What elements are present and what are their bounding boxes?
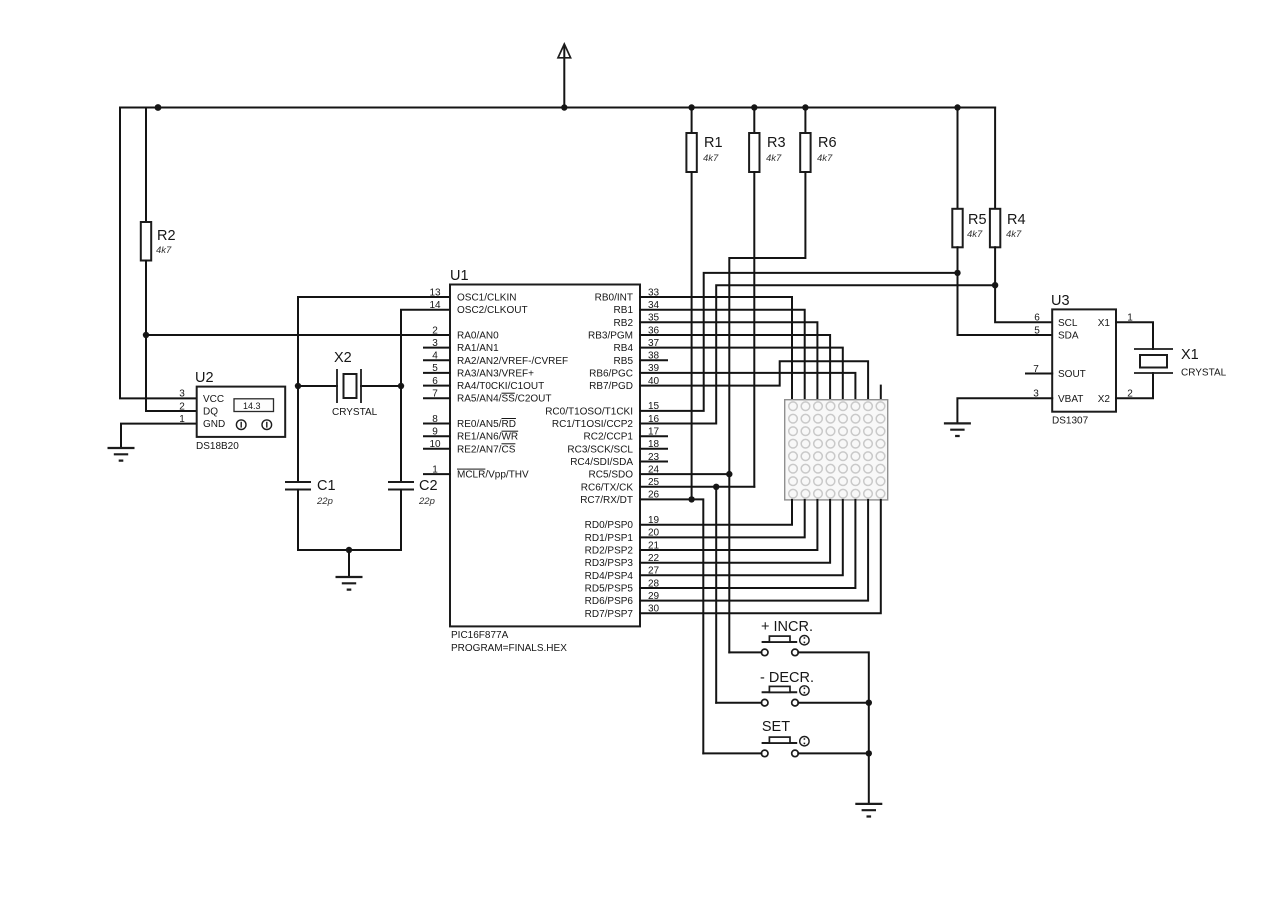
- U1 left pin numbers: [429, 287, 441, 475]
- wire RA0 to PIC pin 2: [146, 334, 450, 336]
- button SET label: [762, 719, 790, 735]
- svg-text:RB6/PGC: RB6/PGC: [589, 368, 633, 379]
- wire rail corner to R4: [994, 108, 996, 209]
- node rail-R6 junction: [802, 104, 808, 110]
- svg-text:RD1/PSP1: RD1/PSP1: [585, 533, 634, 544]
- svg-text:14.3: 14.3: [243, 401, 261, 411]
- svg-text:U1: U1: [450, 268, 469, 284]
- wire RD5 pin28 to matrix bottom pin6: [640, 500, 855, 588]
- wire R3 top: [753, 108, 755, 134]
- wire DECR left lead: [716, 702, 761, 704]
- wire R1 bottom to RC7: [691, 172, 693, 499]
- wire crystal right lead: [361, 385, 401, 387]
- svg-text:RD2/PSP2: RD2/PSP2: [585, 546, 634, 557]
- svg-text:RB0/INT: RB0/INT: [595, 293, 633, 304]
- svg-text:C1: C1: [317, 478, 336, 494]
- svg-text:3: 3: [179, 389, 185, 400]
- wire RD2 pin21 to matrix bottom pin3: [640, 500, 817, 550]
- svg-text:PROGRAM=FINALS.HEX: PROGRAM=FINALS.HEX: [451, 643, 567, 654]
- svg-text:VCC: VCC: [203, 394, 224, 405]
- svg-text:SDA: SDA: [1058, 331, 1079, 342]
- wire R3 bottom to RC6: [753, 172, 755, 487]
- svg-text:1: 1: [179, 414, 185, 425]
- node rail-R3 junction: [751, 104, 757, 110]
- svg-text:RB5: RB5: [614, 356, 634, 367]
- svg-text:4k7: 4k7: [703, 153, 719, 164]
- wire RB6 pin39 to matrix pin6: [640, 373, 855, 400]
- ground U3: [944, 423, 971, 436]
- node button rail SET junction: [866, 750, 872, 756]
- node RC6-DECR junction: [713, 484, 719, 490]
- wire RB7 pin40 dogleg to matrix pin7: [640, 361, 868, 400]
- wire C1 bottom: [297, 490, 299, 551]
- svg-text:RC5/SDO: RC5/SDO: [589, 470, 634, 481]
- svg-text:13: 13: [429, 287, 441, 298]
- wire R2 bottom to DQ: [146, 261, 197, 412]
- U1 unconnected right pin stubs pins 38 17 18 23: [640, 360, 667, 461]
- push button DECR: [761, 686, 809, 706]
- svg-text:DS18B20: DS18B20: [196, 441, 239, 452]
- svg-text:U3: U3: [1051, 293, 1070, 309]
- svg-text:CRYSTAL: CRYSTAL: [1181, 368, 1227, 379]
- wire RC7 pin26 to SET column: [640, 499, 703, 753]
- svg-text:VBAT: VBAT: [1058, 394, 1083, 405]
- wire C1 top: [297, 386, 299, 482]
- U1 right pin names: [545, 293, 633, 620]
- svg-text:SOUT: SOUT: [1058, 369, 1086, 380]
- svg-text:RC2/CCP1: RC2/CCP1: [584, 432, 634, 443]
- svg-text:RE0/AN5/RD: RE0/AN5/RD: [457, 419, 516, 430]
- node rail-arrow junction: [561, 104, 567, 110]
- ground buttons: [855, 804, 882, 817]
- svg-text:RD6/PSP6: RD6/PSP6: [585, 596, 634, 607]
- wire U2 GND to ground: [121, 424, 197, 448]
- svg-text:GND: GND: [203, 419, 225, 430]
- svg-text:OSC2/CLKOUT: OSC2/CLKOUT: [457, 305, 528, 316]
- wire RC1 pin16 to SCL line: [640, 285, 995, 423]
- wire RD1 pin20 to matrix bottom pin2: [640, 500, 805, 538]
- wire RB2 pin35 to matrix pin3: [640, 322, 817, 399]
- svg-text:RE1/AN6/WR: RE1/AN6/WR: [457, 432, 518, 443]
- resistor R4: [990, 209, 1026, 248]
- svg-text:PIC16F877A: PIC16F877A: [451, 630, 509, 641]
- wire crystal left lead: [298, 385, 337, 387]
- svg-text:2: 2: [179, 401, 185, 412]
- wire SET left lead: [703, 752, 761, 754]
- power arrow VCC: [558, 44, 571, 108]
- wire INCR right lead to button rail: [798, 652, 869, 702]
- node X2 left junction: [295, 383, 301, 389]
- svg-text:RC0/T1OSO/T1CKI: RC0/T1OSO/T1CKI: [545, 406, 633, 417]
- wire C2 top: [400, 386, 402, 482]
- microcontroller U1 PIC16F877A: [450, 268, 640, 654]
- svg-text:+ INCR.: + INCR.: [761, 619, 813, 635]
- svg-text:RE2/AN7/CS: RE2/AN7/CS: [457, 444, 516, 455]
- svg-text:4k7: 4k7: [766, 153, 782, 164]
- svg-text:RA1/AN1: RA1/AN1: [457, 343, 499, 354]
- svg-text:RA4/T0CKI/C1OUT: RA4/T0CKI/C1OUT: [457, 381, 544, 392]
- svg-text:DQ: DQ: [203, 407, 218, 418]
- svg-text:X1: X1: [1181, 347, 1199, 363]
- resistor R3: [749, 133, 785, 172]
- svg-text:RC6/TX/CK: RC6/TX/CK: [581, 482, 634, 493]
- svg-text:RC4/SDI/SDA: RC4/SDI/SDA: [570, 457, 633, 468]
- wire RC5 pin24 to INCR column: [640, 473, 729, 475]
- wire matrix pin8 stub: [880, 386, 882, 400]
- svg-text:SET: SET: [762, 719, 790, 735]
- wire R5 top: [957, 108, 959, 209]
- svg-text:RA5/AN4/SS/C2OUT: RA5/AN4/SS/C2OUT: [457, 394, 551, 405]
- svg-text:R4: R4: [1007, 212, 1026, 228]
- svg-text:X2: X2: [334, 350, 352, 366]
- resistor R2: [141, 222, 176, 261]
- svg-text:RB1: RB1: [614, 305, 634, 316]
- wire R4 bottom to U3 SCL: [995, 247, 1052, 322]
- svg-text:OSC1/CLKIN: OSC1/CLKIN: [457, 293, 516, 304]
- wire U3 X2 pin2 to crystal: [1116, 373, 1153, 398]
- svg-text:RC7/RX/DT: RC7/RX/DT: [580, 495, 633, 506]
- svg-text:4k7: 4k7: [1006, 229, 1022, 240]
- svg-text:C2: C2: [419, 478, 438, 494]
- wire U3 SOUT stub pin7: [1026, 373, 1052, 375]
- resistor R5: [952, 209, 986, 248]
- svg-text:22p: 22p: [418, 496, 435, 507]
- svg-text:RC3/SCK/SCL: RC3/SCK/SCL: [567, 444, 633, 455]
- resistor R6: [800, 133, 836, 172]
- wire R5 bottom to U3 SDA: [958, 247, 1053, 335]
- node RC7-R1 junction: [688, 496, 694, 502]
- resistor R1: [686, 133, 722, 172]
- svg-text:6: 6: [1034, 313, 1040, 324]
- wire RD4 pin27 to matrix bottom pin5: [640, 500, 843, 575]
- wire ground stub: [348, 550, 350, 577]
- svg-text:14: 14: [429, 300, 441, 311]
- node RC5-INCR junction: [726, 471, 732, 477]
- ground U2: [108, 448, 135, 461]
- svg-text:DS1307: DS1307: [1052, 416, 1089, 427]
- wire U3 VBAT to ground pin3: [957, 398, 1052, 423]
- wire C1-C2 bottom bus: [298, 549, 401, 551]
- led matrix 8x8 display: [785, 400, 888, 500]
- wire INCR left lead: [729, 651, 761, 653]
- node rail-R5 junction: [954, 104, 960, 110]
- svg-text:R1: R1: [704, 135, 723, 151]
- svg-text:RB2: RB2: [614, 318, 634, 329]
- node button rail DECR junction: [866, 700, 872, 706]
- svg-text:22p: 22p: [316, 496, 333, 507]
- node SDA-R5 junction: [954, 270, 960, 276]
- button DECR label: [760, 670, 814, 686]
- svg-text:R5: R5: [968, 212, 987, 228]
- wire R1 top: [691, 108, 693, 134]
- svg-text:4k7: 4k7: [817, 153, 833, 164]
- svg-text:RA2/AN2/VREF-/CVREF: RA2/AN2/VREF-/CVREF: [457, 356, 568, 367]
- wire RD7 pin30 to matrix bottom pin8: [640, 500, 881, 613]
- svg-text:4k7: 4k7: [156, 245, 172, 256]
- node X2 right junction: [398, 383, 404, 389]
- svg-text:CRYSTAL: CRYSTAL: [332, 407, 378, 418]
- svg-text:RA3/AN3/VREF+: RA3/AN3/VREF+: [457, 368, 534, 379]
- svg-text:5: 5: [1034, 325, 1040, 336]
- U1 left pin names: [457, 293, 568, 481]
- wire RD0 pin19 to matrix bottom pin1: [640, 500, 792, 525]
- wire top power rail: [120, 107, 995, 109]
- crystal X2: [332, 350, 378, 418]
- svg-text:U2: U2: [195, 370, 214, 386]
- wire R6 bottom jog to INCR column: [729, 172, 805, 652]
- svg-text:MCLR/Vpp/THV: MCLR/Vpp/THV: [457, 470, 529, 481]
- U1 right pin numbers: [648, 287, 660, 614]
- svg-text:RD5/PSP5: RD5/PSP5: [585, 584, 634, 595]
- wire RB4 pin37 to matrix pin5: [640, 348, 843, 400]
- svg-text:4k7: 4k7: [967, 229, 983, 240]
- U1 unconnected left pin stubs: [424, 348, 450, 475]
- push button INCR: [761, 636, 809, 656]
- wire RB0 pin33 to matrix pin1: [640, 297, 792, 400]
- svg-text:RB3/PGM: RB3/PGM: [588, 331, 633, 342]
- svg-text:- DECR.: - DECR.: [760, 670, 814, 686]
- svg-text:RA0/AN0: RA0/AN0: [457, 331, 499, 342]
- wire C2 bottom: [400, 490, 402, 551]
- svg-text:X1: X1: [1098, 318, 1111, 329]
- push button SET: [761, 737, 809, 757]
- temperature sensor U2 DS18B20: [179, 370, 285, 452]
- wire DECR column: [715, 487, 717, 703]
- node SCL-R4 junction: [992, 282, 998, 288]
- wire RD3 pin22 to matrix bottom pin4: [640, 500, 830, 563]
- wire left rail drop to U2 VCC: [120, 108, 197, 399]
- wire RC6 pin25 to R3: [640, 486, 754, 488]
- svg-text:X2: X2: [1098, 394, 1111, 405]
- button INCR label: [761, 619, 813, 635]
- wire OSC1 to crystal: [298, 297, 450, 386]
- node ground tee: [346, 547, 352, 553]
- capacitor C2: [388, 478, 438, 507]
- wire RB3 pin36 to matrix pin4: [640, 335, 830, 400]
- rtc U3 DS1307: [1033, 293, 1133, 427]
- svg-text:RB7/PGD: RB7/PGD: [589, 381, 633, 392]
- svg-text:R2: R2: [157, 228, 176, 244]
- svg-text:2: 2: [432, 325, 438, 336]
- capacitor C1: [285, 478, 336, 507]
- wire RC0 pin15 to SDA line: [640, 273, 958, 411]
- node rail-R1 junction: [688, 104, 694, 110]
- svg-text:R3: R3: [767, 135, 786, 151]
- svg-text:RD3/PSP3: RD3/PSP3: [585, 558, 634, 569]
- crystal X1: [1134, 347, 1227, 379]
- wire U3 X1 pin1 to crystal: [1116, 322, 1153, 349]
- svg-text:SCL: SCL: [1058, 318, 1078, 329]
- svg-text:R6: R6: [818, 135, 837, 151]
- node rail-R2 junction: [155, 104, 162, 111]
- wire DECR right lead: [798, 702, 869, 704]
- svg-text:RC1/T1OSI/CCP2: RC1/T1OSI/CCP2: [552, 419, 634, 430]
- wire RD6 pin29 to matrix bottom pin7: [640, 500, 868, 601]
- wire OSC2 to crystal: [401, 310, 450, 386]
- svg-text:RD4/PSP4: RD4/PSP4: [585, 571, 634, 582]
- svg-text:RD0/PSP0: RD0/PSP0: [585, 520, 634, 531]
- wire button rail to ground: [868, 703, 870, 804]
- svg-text:RD7/PSP7: RD7/PSP7: [585, 609, 634, 620]
- ground C1C2: [336, 577, 363, 590]
- wire RB1 pin34 to matrix pin2: [640, 310, 805, 400]
- node R2-RA0 junction: [143, 332, 149, 338]
- wire R2 top: [145, 108, 147, 223]
- wire R6 top: [804, 108, 806, 134]
- svg-text:RB4: RB4: [614, 343, 634, 354]
- wire SET right lead: [798, 752, 869, 754]
